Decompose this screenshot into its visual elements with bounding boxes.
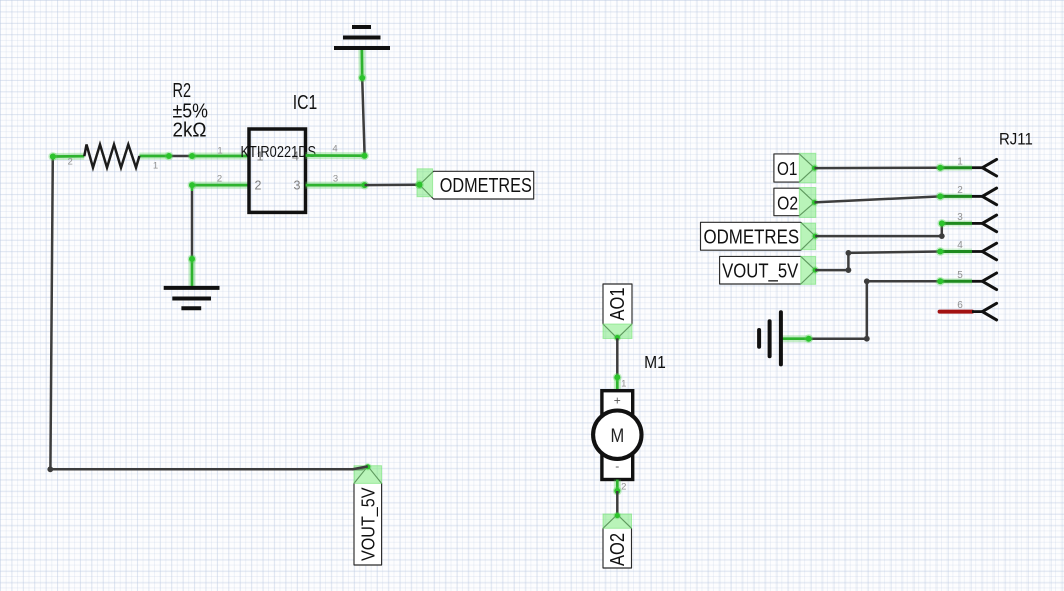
wire dark: VOUT_5V jog up to RJ11 pin 4 — [815, 252, 940, 271]
value label ±5% — [173, 101, 209, 123]
svg-text:2: 2 — [68, 157, 73, 168]
ground (below IC1 pin 2) — [164, 288, 220, 308]
svg-text:M1: M1 — [644, 352, 666, 372]
svg-text:VOUT_5V: VOUT_5V — [722, 260, 799, 282]
wire green: RJ11 pin 1 stub — [940, 165, 972, 171]
wire dark: motor pin 2 to AO2 — [616, 491, 619, 515]
wire green: IC1 pin 4 horizontal — [306, 152, 365, 159]
node: green dot at pin 2 — [936, 192, 945, 201]
resistor R2 zigzag body — [84, 145, 139, 168]
connector pin 4 open-wire symbol — [972, 243, 997, 260]
svg-text:2: 2 — [217, 174, 222, 185]
wire dark: to ODMETRES flag — [365, 183, 420, 186]
net label ODMETRES (right, flag pointing right) — [701, 222, 820, 250]
net label ODMETRES (left flag) — [420, 171, 534, 199]
svg-text:5: 5 — [957, 270, 963, 281]
svg-text:VOUT_5V: VOUT_5V — [358, 487, 380, 561]
wire dark: vertical to lower ground — [191, 191, 194, 259]
net label AO2 (vertical flag pointing up) — [603, 512, 632, 568]
svg-text:3: 3 — [957, 212, 963, 223]
pin number 4 (IC1, inside) — [292, 150, 299, 164]
junction dot at (848.4,252.9) — [846, 250, 852, 256]
svg-text:1: 1 — [621, 378, 626, 389]
net label AO1 (vertical flag pointing down) — [603, 284, 632, 341]
motor M letter — [610, 426, 624, 447]
pin number 2 (resistor left) — [68, 157, 73, 168]
node: green dot at ODMETRES apex — [415, 180, 424, 189]
wire bottom horizontal to VOUT_5V flag — [50, 466, 367, 469]
svg-text:2: 2 — [621, 482, 626, 493]
node: green dot at pin 5 — [936, 277, 945, 286]
svg-text:AO2: AO2 — [607, 533, 629, 566]
wire green: resistor pin1 lead — [139, 153, 169, 160]
svg-text:RJ11: RJ11 — [999, 129, 1033, 148]
wire vertical left (VOUT_5V net, from resistor pin2 down) — [50, 157, 52, 470]
wire dark: O2 to RJ11 pin 2 — [815, 196, 941, 202]
svg-text:IC1: IC1 — [293, 92, 318, 114]
wire green: stub out of motor pin 2 — [614, 480, 621, 492]
motor M1 body rectangle — [602, 391, 633, 480]
value label 2kΩ — [173, 120, 207, 142]
svg-text:2kΩ: 2kΩ — [173, 120, 207, 142]
pin number 2 (IC1, inside) — [255, 179, 262, 193]
ground (right, pointing left) — [759, 312, 781, 364]
svg-text:R2: R2 — [173, 80, 192, 102]
ground (top, above IC1 pin 4) — [334, 27, 390, 48]
svg-text:1: 1 — [957, 156, 963, 167]
reference label RJ11 — [999, 129, 1033, 148]
node: green dot at (364.6,185.1) — [360, 181, 369, 190]
node: green dot at pin 4 — [936, 247, 945, 256]
wire green: RJ11 pin 4 stub — [940, 249, 972, 255]
wire dark: AO1 to motor pin 1 — [616, 338, 619, 377]
connector pin 3 open-wire symbol — [972, 215, 997, 232]
wire dark: ground net to RJ11 pin 5 — [809, 281, 940, 338]
wire green: RJ11 pin 5 stub — [940, 278, 972, 284]
motor plus terminal mark — [614, 394, 621, 408]
node: green dot at (192,258.9) — [188, 255, 197, 264]
junction dot bottom-left corner — [47, 466, 53, 472]
pin 6 unconnected stub (red) — [940, 310, 973, 314]
pin number 1 (resistor right) — [153, 161, 158, 172]
part name KTIR0221DS — [241, 144, 317, 161]
svg-text:6: 6 — [957, 300, 963, 311]
reference label IC1 — [293, 92, 318, 114]
connector pin 1 open-wire symbol — [972, 159, 997, 176]
pin number 3 (IC1, inside) — [294, 179, 301, 193]
svg-text:3: 3 — [294, 179, 301, 193]
svg-text:4: 4 — [957, 240, 963, 251]
node: green dot at (364.6,155.7) — [360, 151, 369, 160]
pin number 1 (IC1, inside) — [257, 150, 264, 164]
svg-text:M: M — [610, 426, 624, 447]
pin number 1 (RJ11) — [957, 156, 963, 167]
node: green dot at motor pin 1 — [613, 373, 622, 382]
connector pin 6 open-wire symbol — [972, 303, 997, 320]
wire green: resistor pin2 lead — [53, 153, 85, 160]
svg-text:1: 1 — [153, 161, 158, 172]
wire dark: O1 to RJ11 pin 1 — [815, 166, 941, 169]
node: green dot at (169,156) — [165, 152, 174, 161]
svg-text:2: 2 — [957, 185, 963, 196]
wire green: IC1 pin 2 horizontal — [192, 185, 249, 191]
svg-text:AO1: AO1 — [607, 288, 629, 321]
pin number 1 (motor) — [621, 378, 626, 389]
pin number 6 (RJ11) — [957, 300, 963, 311]
node: green dot at (362.2,78) — [358, 74, 367, 83]
svg-text:O2: O2 — [777, 192, 798, 213]
net label O2 (flag pointing right) — [774, 188, 818, 218]
connector pin 2 open-wire symbol — [972, 188, 997, 205]
node: green dot at pin 1 — [936, 163, 945, 172]
pin number 5 (RJ11) — [957, 270, 963, 281]
wire green: stub into lower ground — [189, 259, 196, 288]
wire green: stub into right ground — [781, 335, 809, 342]
pin number 4 (IC1, outside) — [332, 144, 337, 155]
pin number 2 (IC1, outside) — [217, 174, 222, 185]
svg-text:+: + — [614, 394, 621, 408]
pin number 2 (motor) — [621, 482, 626, 493]
value label R2 — [173, 80, 192, 102]
pin number 3 (IC1, outside) — [333, 174, 338, 185]
wire dark: short segment between nets on pin1 row — [169, 155, 192, 158]
net label O1 (flag pointing right) — [774, 153, 818, 183]
junction dot at (848.4,270.1) — [846, 267, 852, 273]
wire green: RJ11 pin 3 stub — [942, 220, 972, 226]
svg-text:-: - — [615, 459, 619, 473]
wire green: IC1 pin 3 horizontal — [306, 182, 365, 189]
net highlight at ODMETRES (left) — [415, 169, 433, 197]
pin number 1 (IC1, outside) — [217, 145, 222, 156]
net label VOUT_5V (right, flag pointing right) — [720, 256, 819, 284]
node: green dot at motor pin 2 — [613, 487, 622, 496]
junction dot at (866.8,338.7) — [864, 336, 870, 342]
svg-text:ODMETRES: ODMETRES — [440, 175, 532, 197]
wire green: stub into top ground — [358, 47, 365, 79]
svg-text:O1: O1 — [777, 158, 797, 179]
motor M1 circle — [593, 411, 641, 459]
svg-text:KTIR0221DS: KTIR0221DS — [241, 144, 317, 161]
svg-text:ODMETRES: ODMETRES — [704, 226, 800, 248]
reference label M1 — [644, 352, 666, 372]
pin number 2 (RJ11) — [957, 185, 963, 196]
svg-text:1: 1 — [217, 145, 222, 156]
net label VOUT_5V (bottom flag, vertical) — [352, 463, 382, 565]
node: green dot at (192,156) — [188, 152, 197, 161]
svg-text:2: 2 — [255, 179, 262, 193]
wire dark: vertical up to top ground — [362, 78, 364, 156]
IC IC1 box — [249, 129, 306, 212]
wire green: stub into motor pin 1 — [614, 377, 621, 391]
wire green: RJ11 pin 2 stub — [940, 193, 972, 199]
pin number 4 (RJ11) — [957, 240, 963, 251]
node: green dot at (808.8,338.7) — [804, 334, 813, 343]
node: green dot at (192,185) — [188, 181, 197, 190]
wire dark: ODMETRES to RJ11 pin 3 jog — [815, 223, 942, 236]
junction dot at (941.8,236.1) — [939, 233, 945, 239]
motor minus terminal mark — [615, 459, 619, 473]
wire green: into IC1 pin 1 — [192, 153, 249, 160]
junction dot at (866.8,281.3) — [864, 278, 870, 284]
node: green dot at corner (52.8,156.5) — [48, 152, 57, 161]
pin number 3 (RJ11) — [957, 212, 963, 223]
connector pin 5 open-wire symbol — [972, 273, 997, 290]
node: green dot at pin 3 — [937, 219, 946, 228]
